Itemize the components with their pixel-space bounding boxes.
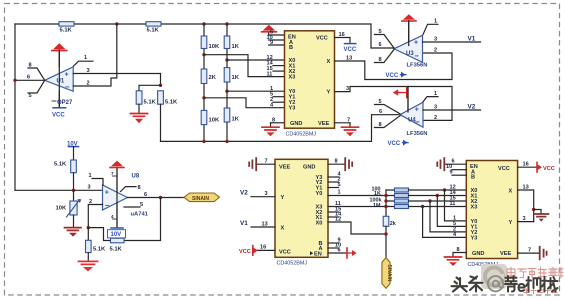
- IC U7 CD4052BMJ body: [466, 161, 517, 259]
- U3 pin 8 lead: [375, 50, 395, 64]
- svg-text:13: 13: [346, 55, 352, 61]
- svg-text:5.1K: 5.1K: [93, 247, 106, 253]
- IC U2 CD4052BMJ body: [285, 31, 335, 128]
- svg-text:−: −: [414, 51, 419, 60]
- svg-text:VEE: VEE: [500, 251, 511, 257]
- wire divider vertical bus: [385, 190, 387, 216]
- junction row2/Y1 branch: [436, 194, 439, 197]
- IC3 pin 8 GND wire: [453, 247, 466, 257]
- svg-text:LF356N: LF356N: [407, 131, 428, 137]
- net label V1 at IC2: [240, 220, 248, 227]
- U4 pin 5 lead: [375, 99, 401, 114]
- svg-text:X: X: [327, 59, 331, 65]
- ground below RV1: [65, 228, 82, 237]
- svg-text:OP27: OP27: [57, 100, 73, 106]
- svg-text:CD4052BMJ: CD4052BMJ: [286, 132, 317, 138]
- svg-text:−: −: [105, 201, 110, 210]
- IC3 pin 6 EN wire: [445, 159, 467, 165]
- svg-text:3: 3: [87, 68, 90, 74]
- value label 100k: [370, 198, 382, 204]
- resistor R17 1M: [395, 205, 409, 209]
- watermark toutiao (vector hanzi): [452, 277, 483, 292]
- svg-text:8: 8: [138, 185, 141, 191]
- wire U3 power stem: [408, 21, 410, 46]
- resistor R1 5.1K (top bus left): [59, 22, 74, 34]
- value label 100: [372, 186, 381, 192]
- IC2 pin 16 VCC wire: [257, 245, 275, 251]
- ground bars at IC2 pin 8: [345, 158, 352, 170]
- junction top bus / U1 pin2 riser: [115, 22, 118, 25]
- wire R16 to IC3 X2: [409, 200, 467, 202]
- svg-text:LF356N: LF356N: [407, 63, 428, 69]
- op-amp U8 uA741: [103, 185, 128, 210]
- op-amp U4 LF356N: [400, 102, 423, 127]
- wire 1K node to IC1 pin 1: [227, 90, 285, 92]
- resistor R3 5.1K (to ground): [136, 91, 156, 106]
- wire 10K/2K node to IC1 pin 11: [204, 55, 285, 77]
- IC1 pin number 1: [270, 86, 273, 92]
- svg-text:X0: X0: [316, 220, 323, 226]
- svg-text:VCC: VCC: [386, 73, 399, 79]
- resistor R8 1K: [224, 36, 240, 50]
- wire left vertical bus: [14, 24, 16, 190]
- resistor R6 2K: [201, 69, 217, 84]
- wire U4 power stem: [407, 87, 409, 113]
- resistor R16 100k: [395, 199, 409, 203]
- svg-text:U3: U3: [406, 51, 414, 57]
- resistor R11 5.1K: [54, 160, 76, 173]
- svg-text:1K: 1K: [374, 191, 381, 197]
- net label V2 at IC2: [240, 190, 248, 197]
- svg-text:8: 8: [29, 63, 32, 69]
- net label V2: [468, 103, 476, 110]
- svg-text:11: 11: [450, 201, 456, 207]
- power VCC arrow above IC1 pin 6: [262, 25, 277, 35]
- ground bars at IC3 pin 7: [540, 247, 547, 260]
- value label 1M: [373, 203, 381, 209]
- svg-text:5: 5: [379, 99, 382, 105]
- IC1 pin 5 stub: [270, 92, 285, 98]
- IC2 pin 9 stub: [328, 237, 341, 243]
- svg-text:Y0: Y0: [316, 191, 323, 197]
- svg-text:16: 16: [523, 162, 529, 168]
- junction divider bus row2: [384, 194, 387, 197]
- svg-text:3: 3: [88, 185, 91, 191]
- svg-text:Y3: Y3: [471, 235, 478, 241]
- IC3 pin number 12: [450, 184, 456, 190]
- svg-text:1M: 1M: [373, 203, 381, 209]
- power VCC arrow above U8: [110, 161, 124, 192]
- U4 pin 3 output wire: [423, 104, 481, 110]
- wire divider bus row stubs: [386, 190, 395, 207]
- svg-text:VEE: VEE: [279, 164, 290, 170]
- svg-text:EN: EN: [314, 251, 322, 257]
- IC U2 name CD4052BMJ: [286, 132, 317, 138]
- IC2 pin 6 EN wire: [328, 247, 347, 253]
- svg-text:V1: V1: [240, 220, 248, 227]
- svg-text:SINAIN: SINAIN: [192, 196, 209, 202]
- ground IC1 pin 8: [262, 123, 279, 136]
- resistor R4 5.1K (feedback to bottom bus): [158, 91, 178, 106]
- wire R17 to IC3 X3: [409, 206, 467, 208]
- IC U6 name CD4052BMJ: [277, 261, 308, 267]
- svg-text:Y: Y: [281, 195, 285, 201]
- resistor R9 1K: [224, 68, 240, 82]
- resistor R18 2k: [383, 216, 396, 227]
- svg-text:5: 5: [338, 182, 341, 188]
- svg-text:+: +: [415, 106, 419, 113]
- IC2 pin 13 X wire, net V1: [251, 221, 275, 227]
- ground below R13: [79, 261, 98, 271]
- svg-text:4: 4: [111, 214, 114, 219]
- value label 1K: [374, 191, 381, 197]
- wire branch row4 to IC3 Y3: [423, 207, 467, 238]
- IC1 pin 16 VCC wire: [335, 32, 351, 38]
- IC2 pin 2 stub: [328, 176, 341, 182]
- junction X/Y ground tap: [532, 208, 535, 211]
- ground bars at IC2 pin 7: [249, 158, 256, 170]
- svg-text:8: 8: [335, 159, 338, 165]
- U4 pin 1 stub: [423, 91, 438, 102]
- svg-text:VCC: VCC: [543, 166, 555, 172]
- IC3 pin number 5: [453, 221, 456, 227]
- junction 1K node B: [225, 90, 228, 93]
- svg-text:2K: 2K: [209, 75, 217, 81]
- svg-text:7: 7: [265, 159, 268, 165]
- IC1 pin 3 Y wire to U4 inverting loop: [335, 86, 453, 121]
- svg-text:7: 7: [111, 171, 114, 176]
- ground at X/Y tap: [534, 210, 549, 222]
- wire bottom bus: [161, 115, 401, 142]
- wire R15 to IC3 X1: [409, 195, 467, 197]
- svg-text:GND: GND: [472, 251, 484, 257]
- svg-text:V1: V1: [468, 35, 476, 42]
- wire 10K chain column: [203, 24, 205, 141]
- junction 1K chain / bottom bus: [225, 140, 228, 143]
- svg-text:2: 2: [434, 115, 437, 121]
- svg-text:5.1K: 5.1K: [144, 100, 157, 106]
- IC1 pin number 4: [270, 103, 274, 109]
- power 10V bar above R11: [67, 142, 79, 160]
- svg-text:11: 11: [267, 71, 273, 77]
- svg-text:1K: 1K: [232, 117, 240, 123]
- port flag SINAIN: [184, 193, 220, 202]
- svg-text:+: +: [105, 190, 109, 197]
- IC3 pin number 4: [453, 232, 457, 238]
- svg-text:B: B: [471, 175, 475, 181]
- U8 pin 5 stub: [124, 202, 143, 208]
- svg-text:3: 3: [523, 216, 526, 222]
- power VCC arrow at IC2 pin16: [239, 246, 258, 256]
- IC2 pin 1 Y0 wire to divider bus: [328, 189, 386, 195]
- svg-text:+: +: [65, 71, 69, 78]
- svg-text:5.1K: 5.1K: [165, 100, 178, 106]
- svg-text:12: 12: [335, 216, 341, 222]
- svg-text:8: 8: [457, 247, 460, 253]
- port flag SINAIN (vertical): [382, 258, 392, 289]
- svg-text:X: X: [509, 189, 513, 195]
- IC1 pin 13 X wire to U3 inverting loop: [335, 53, 453, 80]
- junction row1/Y0 branch: [443, 188, 446, 191]
- svg-text:VCC: VCC: [52, 113, 65, 119]
- svg-text:U8: U8: [132, 174, 140, 180]
- junction U8 pin2 node: [87, 226, 90, 229]
- svg-text:6: 6: [379, 109, 382, 115]
- svg-text:6: 6: [144, 192, 147, 198]
- svg-text:X: X: [281, 226, 285, 232]
- wire IC1 pin 6: [269, 30, 285, 36]
- resistor R7 10K: [201, 110, 220, 124]
- svg-text:10V: 10V: [111, 232, 122, 238]
- svg-text:8: 8: [272, 117, 275, 123]
- IC1 pin 8 GND wire: [271, 117, 285, 123]
- ground IC3 pin 8: [445, 257, 462, 266]
- IC3 pin 13 X wire: [518, 184, 534, 221]
- IC1 pin 2 stub: [270, 97, 285, 103]
- svg-text:8: 8: [379, 122, 382, 128]
- U3 negative supply VCC+: [386, 72, 407, 79]
- ground bars at IC3 pin 6: [437, 158, 444, 170]
- IC2 pin 3 Y wire, net V2: [251, 191, 275, 197]
- IC2 pin 8 GND wire: [328, 159, 345, 165]
- svg-text:VCC: VCC: [279, 250, 291, 256]
- svg-text:1: 1: [84, 55, 87, 61]
- IC3 pin 3 Y wire: [518, 216, 534, 222]
- junction row4/Y3 branch: [421, 205, 424, 208]
- wire branch row3 to IC3 Y2: [430, 201, 466, 232]
- power VCC arrow (left facing) at U4: [393, 87, 408, 111]
- svg-text:VCC: VCC: [498, 166, 510, 172]
- svg-text:GND: GND: [290, 121, 302, 127]
- wire 2K/10K node to IC1 pin 4: [204, 98, 285, 108]
- junction 1K node A: [225, 58, 228, 61]
- IC1 pin number 11: [267, 71, 273, 77]
- svg-text:1: 1: [434, 19, 437, 25]
- svg-text:−: −: [65, 83, 70, 92]
- junction top bus / 10K chain: [202, 22, 205, 25]
- junction row3/Y2 branch: [428, 199, 431, 202]
- svg-text:3: 3: [346, 86, 349, 92]
- IC3 pin 10 stub: [446, 164, 466, 170]
- power VCC arrow at IC3 pin16: [537, 162, 555, 172]
- IC U7 name CD4052BMJ: [468, 262, 499, 268]
- IC1 pin 14 stub: [267, 60, 285, 66]
- wire R4 down to bottom bus: [160, 104, 162, 141]
- IC3 pin number 2: [453, 226, 456, 232]
- svg-text:X3: X3: [289, 75, 296, 81]
- U4 pin 6 label: [379, 109, 382, 115]
- svg-text:2: 2: [89, 199, 92, 205]
- svg-text:U1: U1: [57, 78, 65, 84]
- svg-text:9: 9: [270, 40, 273, 46]
- op-amp U3 LF356N: [394, 35, 423, 62]
- svg-text:1K: 1K: [232, 75, 240, 81]
- svg-text:6: 6: [379, 42, 382, 48]
- IC1 pin number 12: [267, 55, 273, 61]
- IC1 pin 7 VEE wire: [335, 117, 351, 123]
- junction 10K chain / bottom bus: [202, 140, 205, 143]
- IC2 pin 4 stub: [328, 171, 342, 177]
- wire R3 to ground: [138, 104, 140, 113]
- junction top bus / 1K chain: [225, 22, 228, 25]
- svg-text:B: B: [289, 45, 293, 51]
- wire U8 feedback loop: [88, 198, 160, 241]
- resistor R14 100: [395, 188, 409, 192]
- junction 2k node / X0 step wire: [384, 232, 387, 235]
- svg-text:5: 5: [29, 93, 32, 99]
- svg-text:Y: Y: [327, 90, 331, 96]
- U3 part label LF356N: [407, 63, 428, 69]
- svg-text:1K: 1K: [232, 44, 240, 50]
- net label V1: [468, 35, 476, 42]
- svg-text:2: 2: [434, 47, 437, 53]
- svg-text:5.1K: 5.1K: [60, 28, 73, 34]
- svg-text:2: 2: [87, 80, 90, 86]
- U4 pin 8 lead: [375, 116, 401, 128]
- U8 pin 1 stub: [89, 173, 104, 185]
- resistor R2 5.1K (top bus right): [146, 22, 161, 34]
- junction divider bus row3: [384, 199, 387, 202]
- svg-text:Y3: Y3: [289, 106, 296, 112]
- svg-text:V2: V2: [468, 103, 476, 110]
- svg-text:CD4052BMJ: CD4052BMJ: [277, 261, 308, 267]
- svg-text:9: 9: [450, 170, 453, 176]
- svg-text:2k: 2k: [390, 221, 396, 227]
- IC2 pin 5 stub: [328, 182, 341, 188]
- resistor R12 5.1K (feedback): [110, 238, 125, 252]
- watermark eeworld logo: [481, 264, 507, 289]
- junction U8 output node: [159, 196, 162, 199]
- wire pin3 node to R3: [139, 85, 161, 91]
- resistor R13 5.1K (to ground): [86, 228, 107, 261]
- svg-text:X3: X3: [471, 205, 478, 211]
- svg-text:uA741: uA741: [131, 211, 149, 217]
- IC3 pin number 15: [450, 195, 456, 201]
- power bar VCC at IC1 pin16: [344, 38, 357, 53]
- svg-text:5.1K: 5.1K: [147, 28, 160, 34]
- svg-text:5: 5: [140, 202, 143, 208]
- U1 pin 2 wire up to top bus: [73, 24, 117, 86]
- svg-text:3: 3: [434, 36, 437, 42]
- junction 2K/10K node: [202, 96, 205, 99]
- U1 negative supply bar VCC: [52, 91, 66, 118]
- IC U6 CD4052BMJ body (mirrored): [275, 159, 328, 257]
- IC2 pin 11 X3 wire to divider bus: [328, 201, 386, 207]
- power VCC arrow at IC2 pin 6: [347, 248, 357, 258]
- svg-text:1: 1: [89, 173, 92, 179]
- U1 pin 3 output wire to 5.1K node: [73, 68, 160, 86]
- svg-text:13: 13: [262, 221, 268, 227]
- U3 pin 5 lead: [375, 29, 395, 48]
- IC2 pin 12 X0 wire stepped to 2k node: [328, 216, 386, 234]
- op-amp U1 OP27: [45, 67, 73, 92]
- wire U8 power stem: [116, 167, 118, 227]
- svg-text:16: 16: [339, 32, 345, 38]
- wire branch row2 to IC3 Y1: [437, 196, 466, 227]
- svg-text:1: 1: [434, 91, 437, 97]
- IC2 pin 10 stub: [328, 242, 341, 248]
- wire 1K node to IC1 pin 12: [227, 59, 285, 61]
- wire U1 power stem: [58, 50, 60, 108]
- variable resistor RV1 10K: [56, 190, 82, 227]
- svg-text:SINAIN: SINAIN: [386, 265, 392, 282]
- IC3 pin number 1: [453, 215, 456, 221]
- svg-text:6: 6: [27, 75, 30, 81]
- junction divider bus row4: [384, 205, 387, 208]
- U1 part label OP27: [52, 100, 73, 106]
- svg-text:10K: 10K: [56, 205, 67, 211]
- resistor R5 10K: [201, 36, 220, 50]
- svg-text:1: 1: [338, 189, 341, 195]
- U1 pin 6 lead (wire from left bus): [15, 75, 45, 81]
- IC2 pin 15 stub: [328, 206, 341, 212]
- U8 pin 6 output wire: [128, 192, 185, 198]
- U3 pin 6 label: [379, 42, 382, 48]
- svg-text:13: 13: [523, 184, 529, 190]
- ground below R3: [131, 114, 148, 124]
- svg-text:+: +: [414, 40, 418, 47]
- U3 pin 2 label: [434, 47, 437, 53]
- U4 part label LF356N: [407, 131, 428, 137]
- U8 pin 8 stub: [121, 185, 141, 192]
- U8 pin 4 negative supply 10V bar: [108, 204, 126, 238]
- svg-text:10K: 10K: [209, 44, 220, 50]
- svg-text:GND: GND: [303, 164, 315, 170]
- svg-text:−: −: [415, 118, 420, 127]
- watermark eeworld text (vector hanzi): [507, 268, 563, 278]
- wire branch row1 to IC3 Y0: [445, 190, 467, 221]
- wire U8 pin 3 input bus: [15, 185, 103, 191]
- U1 pin 1 stub: [74, 55, 93, 66]
- IC1 pin 9 stub: [269, 40, 285, 46]
- svg-text:3: 3: [265, 191, 268, 197]
- svg-text:Y: Y: [509, 220, 513, 226]
- power VCC arrow above U1: [52, 43, 67, 67]
- U3 pin 1 stub: [423, 19, 438, 35]
- svg-text:16: 16: [260, 245, 266, 251]
- svg-text:10K: 10K: [209, 118, 220, 124]
- IC2 pin 14 stub: [328, 211, 342, 217]
- svg-text:8: 8: [379, 57, 382, 63]
- resistor R15 1K: [395, 194, 409, 198]
- svg-text:VEE: VEE: [318, 121, 329, 127]
- wire 1K chain column: [226, 24, 228, 141]
- IC3 pin number 14: [450, 190, 457, 196]
- svg-text:VCC: VCC: [388, 141, 401, 147]
- U1 pin 5 lead: [28, 80, 45, 99]
- U4 pin 2 label: [434, 115, 437, 121]
- svg-text:VCC: VCC: [316, 36, 328, 42]
- svg-text:6: 6: [338, 247, 341, 253]
- IC1 pin 10 stub: [267, 35, 285, 41]
- U8 part label uA741: [131, 211, 149, 217]
- node U1 pin3 junction: [159, 84, 162, 87]
- U8 pin 2 wire: [88, 199, 102, 228]
- IC3 pin 7 VEE wire: [518, 248, 540, 254]
- svg-text:5.1K: 5.1K: [54, 161, 67, 167]
- wire R14 to IC3 X0: [409, 189, 467, 191]
- wire R11 to U8 pin3 bus: [73, 173, 75, 191]
- svg-text:5.1K: 5.1K: [110, 246, 123, 252]
- svg-text:V2: V2: [240, 190, 248, 197]
- U8 label: [132, 174, 140, 180]
- wire 2k to flag node: [385, 226, 387, 257]
- power VCC arrow above U3: [402, 14, 416, 43]
- junction left bus / U1 pin6: [13, 79, 16, 82]
- U3 pin 3 output wire: [423, 36, 481, 42]
- watermark eeworld small red line: [524, 289, 557, 294]
- IC3 pin 16 VCC wire: [518, 162, 537, 168]
